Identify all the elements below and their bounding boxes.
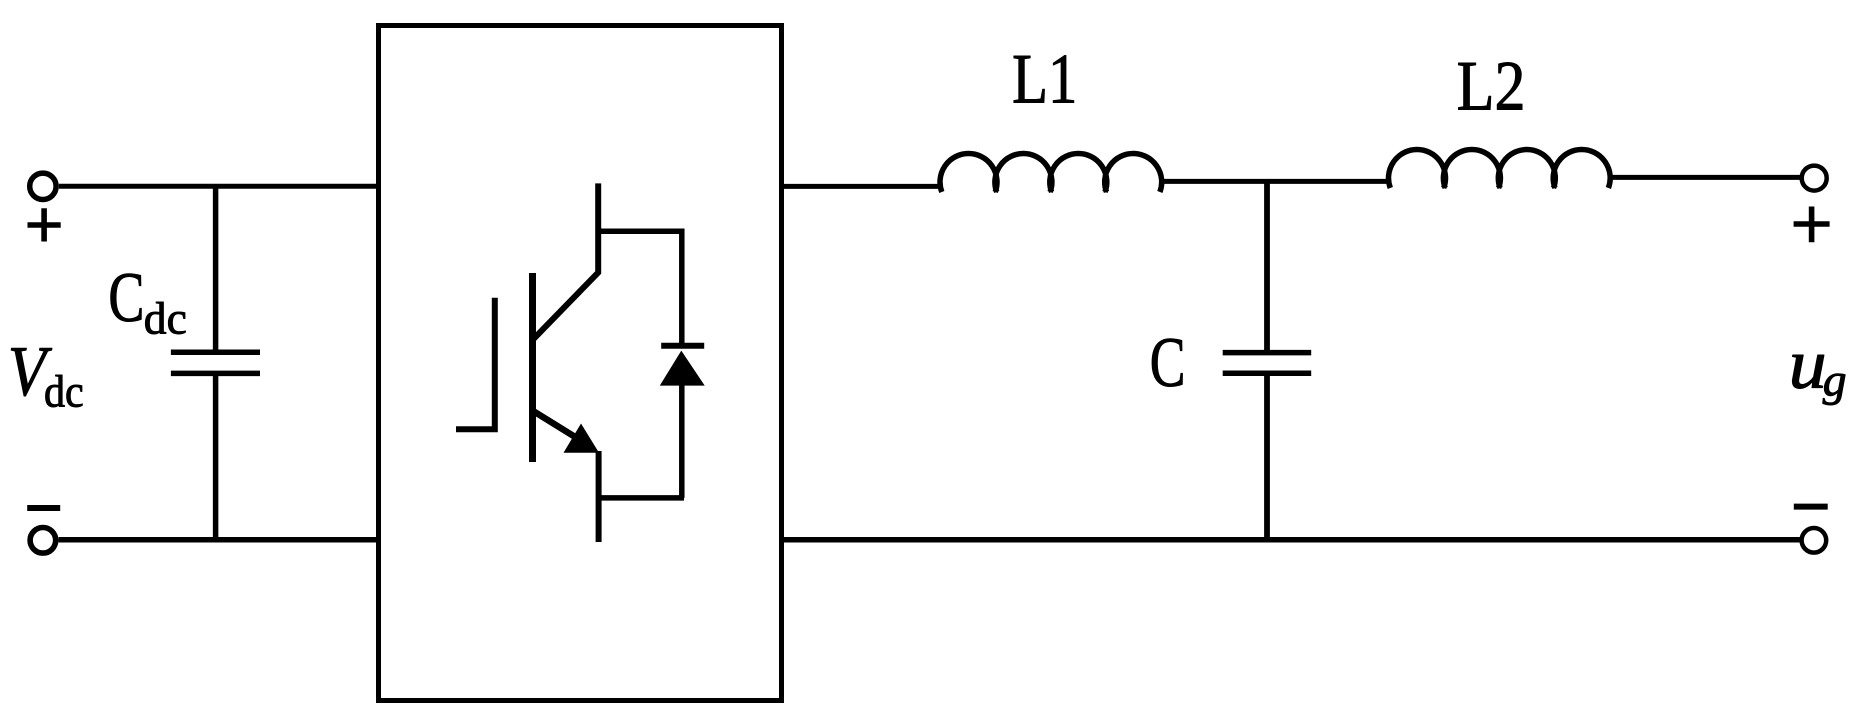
wire (L1 to L2 through node C)	[1159, 179, 1390, 184]
transistor Q1 gate	[456, 298, 495, 430]
plus sign (right)	[1794, 207, 1830, 243]
transistor Q1 collector	[534, 183, 598, 338]
terminal T4 (AC- output)	[1802, 528, 1827, 553]
diode D1 cathode lead	[679, 229, 685, 346]
svg-text:L1: L1	[1012, 40, 1077, 118]
diode D1 triangle	[660, 351, 705, 386]
svg-text:C: C	[1150, 323, 1186, 402]
svg-text:g: g	[1823, 355, 1847, 406]
capacitor Cdc bottom lead wire	[213, 373, 219, 539]
minus sign (left)	[27, 505, 60, 511]
terminal T3 (AC+ output)	[1802, 166, 1827, 191]
svg-text:dc: dc	[44, 366, 84, 417]
inductor L2	[1389, 150, 1611, 188]
minus sign (right)	[1794, 504, 1828, 510]
wire (L2 to output terminal)	[1608, 175, 1801, 180]
transistor Q1 emitter	[534, 412, 580, 441]
label L2	[1457, 48, 1526, 126]
svg-text:C: C	[108, 258, 144, 337]
wire (collector to diode)	[598, 228, 682, 234]
inverter box U1	[379, 26, 782, 701]
diode D1 anode lead	[679, 383, 685, 498]
wire (emitter to diode)	[598, 495, 684, 501]
label Vdc	[8, 332, 53, 411]
capacitor C top lead wire	[1264, 181, 1270, 352]
capacitor C bottom lead wire	[1264, 373, 1270, 540]
inductor L1	[940, 154, 1162, 192]
wire (bottom rail: inverter box to output terminal)	[782, 537, 1802, 543]
transistor Q1 emitter arrowhead	[564, 424, 600, 453]
capacitor Cdc	[171, 352, 260, 373]
terminal T1 (DC+ input)	[30, 173, 56, 199]
label C	[1150, 323, 1186, 402]
wire (inverter box to L1)	[782, 184, 944, 189]
wire (DC- rail: terminal to inverter box)	[59, 537, 380, 543]
capacitor Cdc top lead wire	[213, 186, 219, 352]
label Cdc	[108, 258, 144, 337]
terminal T2 (DC- input)	[30, 528, 56, 554]
label ug	[1789, 324, 1827, 403]
label L1	[1012, 40, 1077, 118]
svg-text:L2: L2	[1457, 48, 1526, 126]
wire (DC+ rail: terminal to inverter box)	[59, 184, 379, 189]
transistor Q1 emitter lead	[596, 451, 602, 542]
capacitor C	[1223, 353, 1312, 374]
plus sign (left)	[28, 208, 61, 241]
transistor Q1 body bar	[529, 273, 536, 462]
diode D1 cathode bar	[661, 343, 704, 349]
svg-text:dc: dc	[144, 292, 187, 343]
svg-text:u: u	[1789, 324, 1827, 403]
